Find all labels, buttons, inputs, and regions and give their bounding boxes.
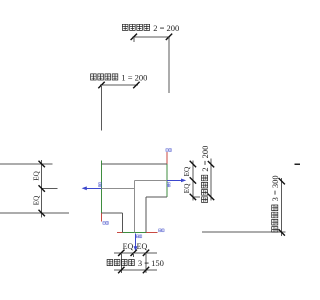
duct outline top edge [102, 163, 167, 165]
blue witness grip bottom with arrow [134, 234, 138, 252]
dimension D6 witness bottom [202, 231, 286, 233]
dimension witness middle stub [133, 253, 135, 257]
connector stub red bottom-right tip [146, 231, 158, 233]
duct outline right-bottom edge [146, 196, 167, 198]
svg-text:EQ: EQ [33, 170, 41, 180]
dimension D3 tick top [39, 161, 45, 167]
reference line green right vertical [166, 164, 168, 197]
dimension D5 tick top [208, 161, 214, 167]
connector label blue bottom-right [159, 229, 165, 232]
dimension D4 tick bottom [190, 194, 196, 200]
dimension D6 text [270, 175, 280, 232]
svg-text:3 = 150: 3 = 150 [138, 258, 164, 268]
svg-text:EQ: EQ [137, 242, 148, 251]
dimension D4 EQ text lower [183, 183, 191, 193]
dimension D7 tick right [143, 250, 149, 256]
dimension D4 tick top [190, 161, 196, 167]
connector stub red below left reference line [101, 213, 103, 221]
dimension D6 line [281, 178, 283, 236]
dimension D3 tick middle [39, 185, 45, 191]
dimension D3 tick bottom [39, 210, 45, 216]
partial arrow dash at right edge [295, 163, 300, 165]
dimension D2 witness stub left [133, 37, 135, 42]
connector label blue top [166, 149, 172, 152]
blue grip icon right [167, 183, 170, 187]
svg-text:1 = 200: 1 = 200 [121, 73, 147, 83]
dimension D2 text [122, 23, 179, 33]
dimension D4 EQ text upper [183, 166, 191, 176]
dimension D2 witness line [168, 37, 170, 93]
dimension D8 tick left [118, 267, 124, 273]
dimension D1 tick right [133, 82, 139, 88]
dimension D2 tick right [166, 34, 172, 40]
dimension D3 witness bottom [0, 212, 69, 214]
dimension D6 tick bottom [279, 229, 285, 235]
dimension D4 tick middle [190, 177, 196, 183]
dimension D3 witness top [0, 163, 53, 165]
dimension D2 tick left [131, 34, 137, 40]
duct outline left-bottom edge [102, 212, 123, 214]
dimension D7 line [114, 252, 157, 254]
svg-text:2 = 200: 2 = 200 [200, 146, 210, 172]
blue grip label bottom [136, 235, 142, 238]
duct outline branch right edge [145, 197, 147, 233]
dimension D1 line [100, 84, 138, 86]
dimension D1 witness line [101, 85, 103, 131]
dimension D3 EQ text lower [33, 195, 41, 205]
dimension D4 witness bottom stub [193, 196, 200, 198]
dimension D6 tick top [279, 178, 285, 184]
dimension D3 witness middle [42, 188, 58, 190]
svg-text:3 = 300: 3 = 300 [270, 175, 280, 201]
connector stub red bottom-left tip [117, 231, 122, 233]
centerline bottom branch [133, 180, 135, 232]
duct outline branch left edge [121, 213, 123, 232]
centerline right duct [134, 179, 166, 181]
reference line green left vertical [101, 161, 103, 214]
blue grip icon left [99, 183, 102, 187]
dimension D1 tick left [98, 82, 104, 88]
dimension D7 tick middle [131, 250, 137, 256]
dimension witness vertical right [145, 253, 147, 273]
dimension D5 tick bottom [208, 194, 214, 200]
blue witness grip left with arrow [82, 186, 102, 190]
dimension witness vertical left [120, 253, 122, 273]
dimension D8 text 管道寬度 3 = 150 [107, 258, 164, 268]
dimension D8 tick right [143, 267, 149, 273]
dimension D3 EQ text upper [33, 170, 41, 180]
dimension D7 tick left [118, 250, 124, 256]
dimension D5 text [200, 146, 210, 203]
svg-text:EQ: EQ [183, 166, 191, 176]
connector label blue bottom-left [103, 222, 109, 225]
blue witness grip right with arrow [167, 179, 186, 183]
dimension D2 line [133, 36, 171, 38]
centerline left duct [102, 188, 135, 190]
svg-text:2 = 200: 2 = 200 [153, 23, 179, 33]
dimension D3 line [41, 160, 43, 217]
reference line green bottom horizontal [122, 231, 145, 233]
dimension D8 line [114, 269, 157, 271]
svg-text:EQ: EQ [183, 183, 191, 193]
connector stub red above right reference line [166, 152, 168, 164]
dimension D5 line [210, 159, 212, 201]
dimension D4 line [192, 161, 194, 201]
svg-text:EQ: EQ [33, 195, 41, 205]
dimension D1 text [91, 73, 148, 83]
